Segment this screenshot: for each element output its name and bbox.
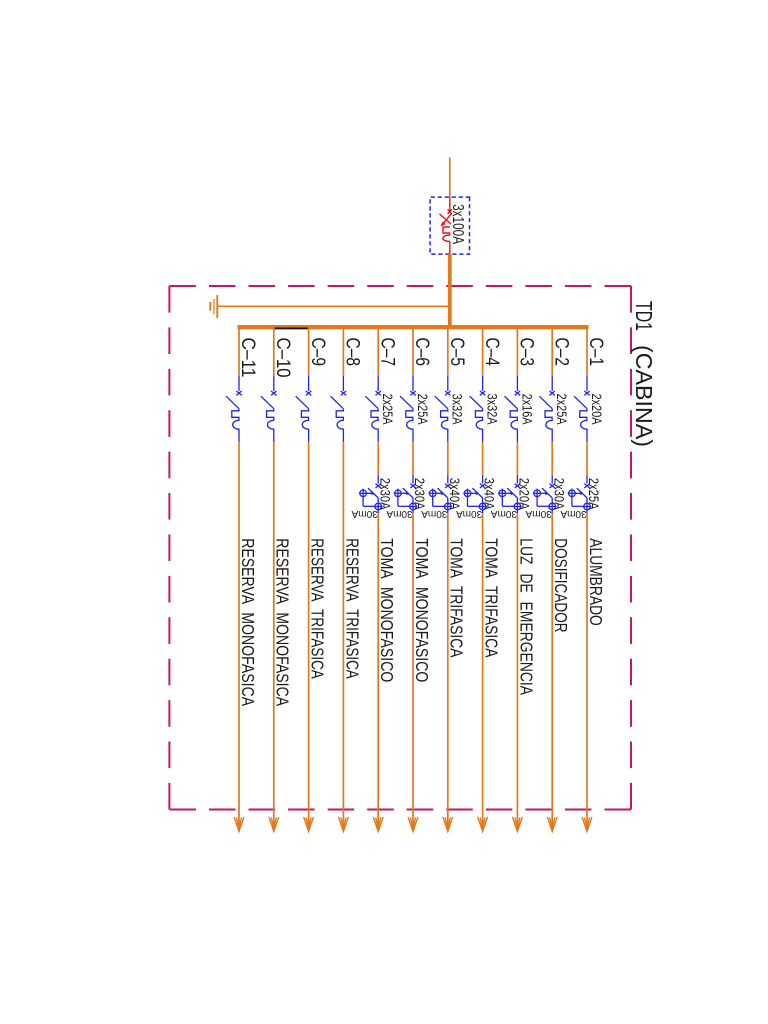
node C-5 branch from bus — [421, 325, 467, 832]
node C-11 branch from bus — [226, 325, 258, 832]
RCD differential C-5 30mA — [429, 484, 453, 514]
wire C-7 bus to breaker — [377, 325, 379, 376]
node C-7 branch from bus — [351, 325, 397, 832]
svg-text:TOMA TRIFASICA: TOMA TRIFASICA — [447, 538, 467, 657]
svg-text:TOMA MONOFASICO: TOMA MONOFASICO — [377, 538, 397, 682]
arrow C-3 outgoing — [513, 817, 523, 832]
wire C-4 breaker to RCD — [482, 442, 484, 475]
svg-text:C–10: C–10 — [272, 338, 293, 378]
wire C-10 breaker to arrow — [273, 442, 275, 829]
svg-text:C–9: C–9 — [307, 338, 328, 367]
black segment on bus between C-9 and C-10 — [274, 327, 309, 329]
svg-text:RESERVA TRIFASICA: RESERVA TRIFASICA — [342, 538, 362, 679]
node C-1 branch from bus — [560, 325, 606, 832]
svg-text:(CABINA): (CABINA) — [631, 345, 657, 447]
wire incoming feeder — [449, 158, 451, 198]
ground (earth electrode) — [210, 295, 217, 318]
svg-text:2x25A: 2x25A — [380, 394, 396, 426]
arrow C-2 outgoing — [547, 817, 557, 832]
wire C-5 RCD to arrow — [447, 513, 449, 829]
svg-text:2x25A: 2x25A — [586, 478, 602, 510]
node C-8 branch from bus — [331, 325, 363, 832]
wire C-10 bus to breaker — [273, 325, 275, 376]
wire C-9 bus to breaker — [308, 325, 310, 376]
svg-text:DOSIFICADOR: DOSIFICADOR — [551, 538, 571, 632]
svg-text:C–11: C–11 — [237, 338, 258, 378]
breaker C-4 — [470, 391, 486, 442]
arrow C-4 outgoing — [478, 817, 488, 832]
wire C-2 bus to breaker — [551, 325, 553, 376]
breaker C-7 — [365, 391, 381, 442]
wire feeder to bus (thick) — [448, 254, 452, 329]
wire C-6 RCD to arrow — [412, 513, 414, 829]
node C-2 branch from bus — [525, 325, 571, 832]
wire C-7 breaker to RCD — [377, 442, 379, 475]
breaker C-8 — [331, 391, 347, 442]
svg-text:3x32A: 3x32A — [450, 394, 466, 426]
wire C-3 bus to breaker — [516, 325, 518, 376]
breaker C-6 — [400, 391, 416, 442]
main breaker enclosure (blue dashed box) — [430, 197, 469, 254]
svg-text:ALUMBRADO: ALUMBRADO — [586, 538, 606, 626]
wire C-3 breaker to RCD — [516, 442, 518, 475]
wire C-1 bus to breaker — [586, 325, 588, 376]
RCD differential C-2 30mA — [533, 484, 557, 514]
breaker C-1 — [574, 391, 590, 442]
svg-text:C–6: C–6 — [411, 338, 432, 367]
wire earth tap — [218, 305, 450, 307]
svg-text:2x30A: 2x30A — [412, 478, 428, 510]
node C-10 branch from bus — [261, 325, 293, 832]
svg-text:C–1: C–1 — [585, 338, 606, 367]
breaker C-2 — [539, 391, 555, 442]
svg-text:C–8: C–8 — [342, 338, 363, 367]
svg-text:2x30A: 2x30A — [377, 478, 393, 510]
wire C-11 breaker to arrow — [238, 442, 240, 829]
RCD differential C-6 30mA — [394, 484, 418, 514]
RCD differential C-4 30mA — [463, 484, 487, 514]
wire C-3 RCD to arrow — [516, 513, 518, 829]
wire C-2 breaker to RCD — [551, 442, 553, 475]
svg-text:C–3: C–3 — [516, 338, 537, 367]
node C-3 branch from bus — [490, 325, 536, 832]
wire C-8 bus to breaker — [342, 325, 344, 376]
svg-text:TOMA MONOFASICO: TOMA MONOFASICO — [412, 538, 432, 682]
arrow C-6 outgoing — [408, 817, 418, 832]
breaker C-10 — [261, 391, 277, 442]
node C-6 branch from bus — [386, 325, 432, 832]
svg-text:LUZ DE EMERGENCIA: LUZ DE EMERGENCIA — [516, 538, 536, 695]
arrow C-5 outgoing — [443, 817, 453, 832]
svg-text:RESERVA MONOFASICA: RESERVA MONOFASICA — [238, 538, 258, 706]
arrow C-11 outgoing — [234, 817, 244, 832]
wire C-7 RCD to arrow — [377, 513, 379, 829]
node C-4 branch from bus — [456, 325, 502, 832]
wire C-5 breaker to RCD — [447, 442, 449, 475]
svg-text:2x30A: 2x30A — [551, 478, 567, 510]
wire C-8 breaker to arrow — [342, 442, 344, 829]
svg-text:2x20A: 2x20A — [517, 478, 533, 510]
svg-text:2x25A: 2x25A — [415, 394, 431, 426]
svg-text:C–5: C–5 — [446, 338, 467, 367]
svg-text:3x40A: 3x40A — [482, 478, 498, 510]
breaker C-11 — [226, 391, 242, 442]
svg-text:3x100A: 3x100A — [449, 204, 466, 244]
arrow C-7 outgoing — [373, 817, 383, 832]
svg-text:C–4: C–4 — [481, 338, 502, 367]
wire C-6 bus to breaker — [412, 325, 414, 376]
wire C-5 bus to breaker — [447, 325, 449, 376]
wire C-2 RCD to arrow — [551, 513, 553, 829]
wire C-4 bus to breaker — [482, 325, 484, 376]
wire C-9 breaker to arrow — [308, 442, 310, 829]
breaker C-9 — [296, 391, 312, 442]
breaker C-3 — [505, 391, 521, 442]
RCD differential C-3 30mA — [498, 484, 522, 514]
svg-text:C–2: C–2 — [550, 338, 571, 367]
RCD differential C-1 30mA — [568, 484, 592, 514]
svg-text:3x40A: 3x40A — [447, 478, 463, 510]
wire C-1 breaker to RCD — [586, 442, 588, 475]
svg-text:2x16A: 2x16A — [519, 394, 535, 426]
arrow C-10 outgoing — [269, 817, 279, 832]
svg-text:2x20A: 2x20A — [589, 394, 605, 426]
svg-text:2x25A: 2x25A — [554, 394, 570, 426]
bus bar TD1 — [238, 325, 589, 329]
wire C-1 RCD to arrow — [586, 513, 588, 829]
wire C-4 RCD to arrow — [482, 513, 484, 829]
svg-text:3x32A: 3x32A — [485, 394, 501, 426]
svg-text:RESERVA MONOFASICA: RESERVA MONOFASICA — [273, 538, 293, 706]
arrow C-8 outgoing — [339, 817, 349, 832]
node C-9 branch from bus — [296, 325, 328, 832]
arrow C-1 outgoing — [582, 817, 592, 832]
wire C-11 bus to breaker — [238, 325, 240, 376]
svg-text:TOMA TRIFASICA: TOMA TRIFASICA — [482, 538, 502, 657]
panel enclosure dashed border TD1 — [169, 286, 631, 810]
svg-text:TD1: TD1 — [631, 301, 657, 331]
breaker C-5 — [435, 391, 451, 442]
svg-text:30mA: 30mA — [351, 508, 378, 519]
wire C-6 breaker to RCD — [412, 442, 414, 475]
RCD differential C-7 30mA — [359, 484, 383, 514]
main breaker Q0 3x100A — [440, 197, 453, 254]
svg-text:RESERVA TRIFASICA: RESERVA TRIFASICA — [308, 538, 328, 679]
svg-text:C–7: C–7 — [376, 338, 397, 367]
arrow C-9 outgoing — [304, 817, 314, 832]
